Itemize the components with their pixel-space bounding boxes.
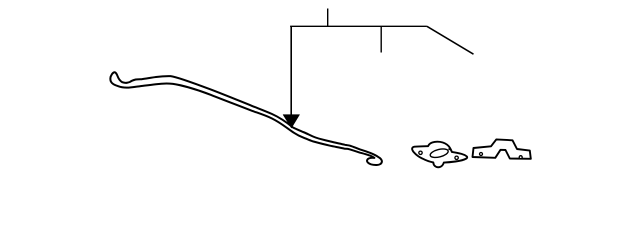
- grommet plate outline: [412, 142, 467, 167]
- grommet right hole: [455, 156, 458, 159]
- leader tick lower: [380, 26, 382, 52]
- hat bracket outline: [473, 139, 531, 158]
- arrow stem: [290, 26, 292, 115]
- hat bracket right hole: [519, 156, 522, 159]
- leader tick upper: [327, 9, 329, 27]
- leader line diagonal: [427, 26, 474, 54]
- grommet dome lip line: [448, 149, 452, 152]
- grommet plate dome opening: [429, 147, 449, 159]
- leader line horizontal: [290, 25, 427, 27]
- rod (hood lock control rod) closed outline with end hooks: [110, 72, 381, 165]
- grommet left hole: [419, 151, 422, 154]
- hat bracket left hole: [480, 153, 483, 156]
- arrowhead: [283, 115, 300, 129]
